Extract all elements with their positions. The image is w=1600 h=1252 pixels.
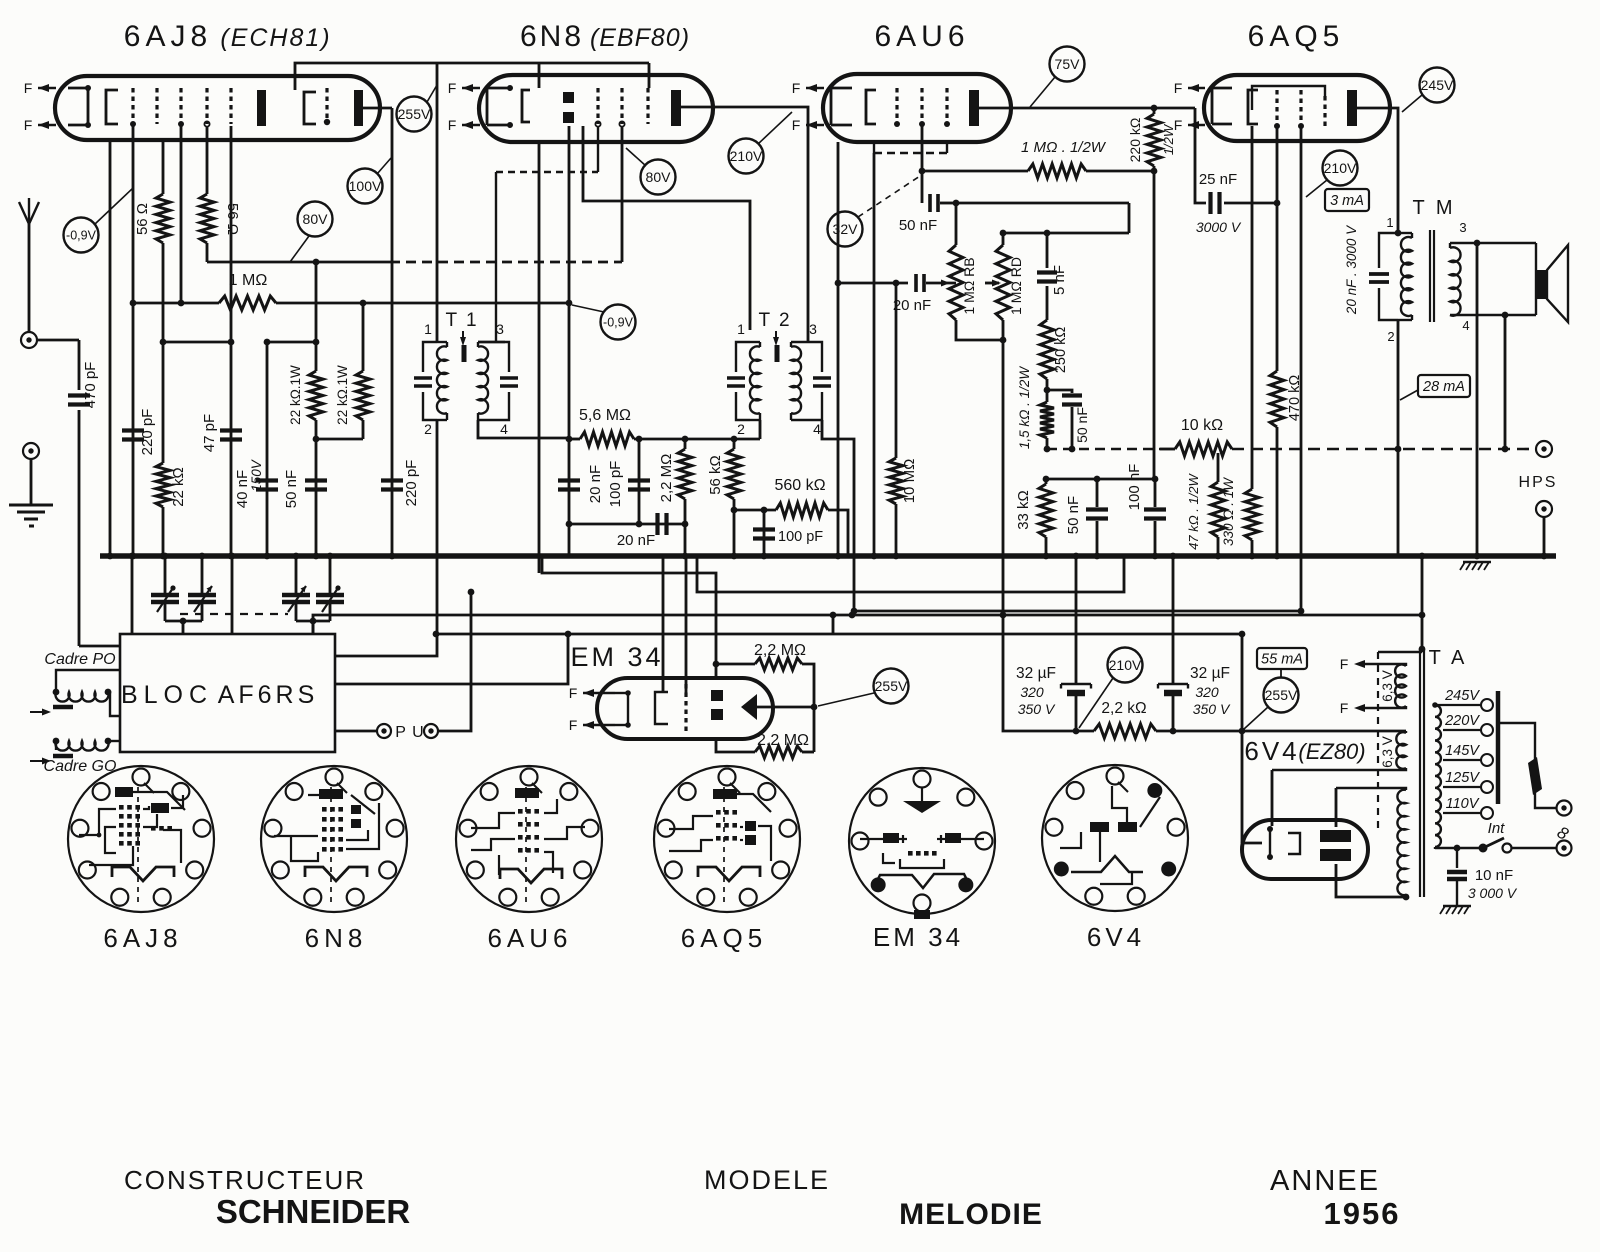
svg-text:80V: 80V — [646, 169, 672, 185]
svg-text:T A: T A — [1429, 647, 1468, 669]
tube EM34 heater arrows — [583, 692, 615, 694]
capacitor 25nF 3000V — [1195, 108, 1206, 203]
svg-text:245V: 245V — [1421, 77, 1454, 93]
wire V1 g3 down to AGC — [180, 126, 183, 303]
socket 6N8 — [261, 766, 407, 912]
wire EM34 plate feed — [662, 556, 665, 693]
svg-text:560 kΩ: 560 kΩ — [774, 477, 825, 494]
svg-text:25 nF: 25 nF — [1199, 171, 1237, 188]
transformer T2 core — [775, 345, 780, 362]
svg-text:T 2: T 2 — [758, 310, 791, 331]
wire antenna to 470pF — [37, 339, 79, 342]
wire V4 anode to TM — [1357, 108, 1398, 233]
svg-text:110V: 110V — [1446, 796, 1480, 812]
svg-text:10 kΩ: 10 kΩ — [1181, 417, 1223, 434]
tube V2 grid g2 — [620, 88, 623, 124]
svg-text:F: F — [448, 117, 457, 133]
trimmer CV3 — [295, 556, 298, 595]
svg-text:50 nF: 50 nF — [1065, 496, 1082, 534]
svg-text:Cadre PO: Cadre PO — [44, 651, 115, 668]
svg-text:47 kΩ . 1/2W: 47 kΩ . 1/2W — [1186, 472, 1201, 549]
tube V1 filament — [68, 87, 88, 90]
resistor 10M grid leak — [895, 283, 898, 458]
svg-text:100V: 100V — [349, 178, 382, 194]
antenna — [28, 198, 30, 224]
core Cadre GO — [53, 754, 73, 759]
resistor 56 ohm (1) — [162, 140, 165, 194]
svg-text:20 nF . 3000 V: 20 nF . 3000 V — [1344, 224, 1359, 315]
tube V1 triode grid dashes — [325, 88, 328, 124]
svg-text:210V: 210V — [1324, 160, 1357, 176]
svg-text:1/2W: 1/2W — [1161, 123, 1176, 155]
svg-text:220V: 220V — [1444, 713, 1480, 729]
wire speaker return to HPS line — [1504, 315, 1507, 449]
svg-text:F: F — [792, 80, 801, 96]
tube EM34 filament — [627, 693, 629, 725]
svg-text:32V: 32V — [833, 221, 859, 237]
svg-text:2,2 MΩ: 2,2 MΩ — [754, 642, 806, 659]
svg-text:6N8: 6N8 — [305, 923, 368, 953]
transformer T1 core — [462, 345, 467, 362]
wire rail screen y=611 — [854, 610, 1301, 613]
tube V2 anode — [671, 90, 681, 126]
voltage -0,9V circle (V1) — [64, 218, 99, 253]
socket 6V4 — [1042, 765, 1188, 911]
wire voltage selector bar — [1496, 691, 1501, 804]
svg-text:(EBF80): (EBF80) — [590, 24, 690, 52]
resistor 330ohm 1W — [1245, 489, 1259, 540]
node earth terminal — [23, 443, 39, 459]
resistor 1M 1/2W — [922, 170, 1028, 173]
wire antenna lead — [28, 224, 31, 332]
trimmer CV2 — [201, 556, 204, 595]
wire V3 g1 return to bus — [873, 153, 876, 556]
capacitor 50nF (V3 g2) — [921, 171, 924, 203]
resistor 22k 1W (2) — [362, 303, 365, 371]
wire HT rail to 6V4 cathode — [1241, 634, 1244, 843]
svg-text:F: F — [1174, 80, 1183, 96]
svg-text:33 kΩ: 33 kΩ — [1015, 490, 1032, 530]
svg-text:20 nF: 20 nF — [617, 532, 655, 549]
wire V2 cathode down long — [538, 142, 541, 573]
transformer T1 primary — [423, 342, 437, 372]
tube V1 6AJ8 envelope — [55, 76, 380, 140]
tube V1 triode grid bracket — [304, 92, 316, 124]
wire 6V4 plate bottom to HT winding — [1336, 864, 1406, 897]
tube V1 grid g4 — [205, 88, 208, 124]
svg-text:(ECH81): (ECH81) — [220, 24, 331, 52]
resistor 33k — [1045, 479, 1048, 484]
svg-text:4: 4 — [500, 421, 508, 437]
svg-text:6,3 V: 6,3 V — [1380, 670, 1395, 702]
node PU terminal right — [424, 724, 438, 738]
wire top rung y=342 left — [163, 341, 231, 344]
svg-text:-0,9V: -0,9V — [66, 229, 97, 243]
svg-text:6V4: 6V4 — [1244, 736, 1299, 766]
voltage 75V circle — [1050, 47, 1085, 82]
svg-text:EM 34: EM 34 — [570, 642, 663, 672]
svg-text:3 000 V: 3 000 V — [1468, 885, 1518, 901]
svg-text:255V: 255V — [1265, 687, 1298, 703]
node HPS terminal top — [1536, 441, 1552, 457]
svg-text:EM 34: EM 34 — [873, 922, 963, 952]
resistor 2,2M (EM34 top) — [715, 664, 718, 678]
tube V3 filament — [830, 88, 833, 125]
svg-text:22 kΩ.1W: 22 kΩ.1W — [335, 365, 350, 425]
tube EM34 grid — [684, 684, 687, 733]
resistor 560k — [734, 509, 776, 512]
svg-text:F: F — [448, 80, 457, 96]
svg-text:1: 1 — [737, 321, 745, 337]
transformer TM secondary — [1450, 247, 1461, 315]
svg-text:1,5 kΩ . 1/2W: 1,5 kΩ . 1/2W — [1017, 366, 1032, 450]
wire V4 g1 down — [1276, 126, 1279, 203]
tube V3 grid g3 — [945, 88, 948, 124]
wire RD top rung — [1003, 232, 1129, 235]
resistor 2,2M — [678, 449, 692, 499]
svg-text:22 kΩ: 22 kΩ — [170, 467, 187, 507]
resistor 1,5k 1/2W — [1046, 379, 1049, 402]
svg-text:220 kΩ: 220 kΩ — [1127, 118, 1143, 163]
svg-text:4: 4 — [813, 421, 821, 437]
svg-text:2: 2 — [737, 421, 745, 437]
wire det bottom rung — [569, 523, 685, 526]
tube V1 triode anode — [354, 90, 363, 126]
socket 6AQ5 — [654, 766, 800, 912]
trimmer CV1 — [164, 556, 167, 595]
tube EM34 deflectors — [711, 690, 723, 701]
svg-text:P U: P U — [395, 724, 424, 741]
tube EM34 plate bracket — [655, 692, 668, 724]
tube V2 diode plates — [563, 92, 574, 103]
socket 6AU6 — [456, 766, 602, 912]
coil Cadre PO — [56, 692, 109, 702]
resistor 2,2M (EM34 bottom) — [716, 739, 755, 752]
svg-text:50 nF: 50 nF — [899, 217, 937, 234]
svg-text:320: 320 — [1195, 684, 1219, 700]
wire V1 osc grid down — [391, 108, 394, 556]
tube V1 heater F arrows — [38, 87, 56, 89]
capacitor 32uF (1) — [1075, 556, 1078, 683]
svg-text:6AU6: 6AU6 — [487, 923, 572, 953]
resistor 56 ohm (2) — [206, 126, 209, 194]
tube V1 anode (hexode) — [257, 90, 266, 126]
tube V2 6N8 envelope — [479, 75, 713, 142]
svg-text:3 mA: 3 mA — [1330, 193, 1364, 209]
node antenna terminal — [21, 332, 37, 348]
tube 6V4 cathode — [1269, 829, 1271, 857]
svg-text:1 MΩ RB: 1 MΩ RB — [961, 257, 977, 314]
tube V1 grid g5 — [229, 88, 232, 124]
wire bloc pin risers — [131, 556, 134, 634]
transformer TM core — [1429, 230, 1431, 322]
capacitor 50nF (V1 screen) — [315, 439, 318, 556]
tube V3 grid g2 — [920, 88, 923, 124]
wire secondary ground return — [1476, 243, 1479, 556]
svg-text:6AU6: 6AU6 — [874, 20, 969, 53]
voltage 80V circle (V2) — [641, 160, 676, 195]
tube V1 grid g1 — [131, 88, 134, 124]
svg-text:6AQ5: 6AQ5 — [681, 923, 768, 953]
svg-text:2: 2 — [1387, 329, 1394, 344]
wire 6V4 heater tap — [1271, 770, 1274, 826]
tube V2 heater F arrows — [462, 87, 480, 89]
svg-text:SCHNEIDER: SCHNEIDER — [216, 1193, 411, 1230]
svg-text:20 nF: 20 nF — [893, 297, 931, 314]
svg-text:245V: 245V — [1444, 688, 1480, 704]
svg-text:32 µF: 32 µF — [1190, 665, 1230, 682]
wire V2 diode down — [568, 126, 571, 439]
tube V4 anode — [1347, 90, 1357, 126]
tube V4 grid g1 — [1275, 90, 1278, 126]
tube V1 grid g3 — [179, 88, 182, 124]
capacitor 10nF 3000V — [1456, 848, 1458, 868]
wire top rung y=342 right — [267, 341, 316, 344]
svg-text:1: 1 — [424, 321, 432, 337]
transformer T2 secondary — [736, 342, 750, 372]
svg-text:47 pF: 47 pF — [201, 414, 218, 452]
voltage 255V circle (EM34) — [874, 669, 909, 704]
resistor 22k (below 56ohm) — [162, 243, 165, 463]
wire rail HT2 y=634 — [436, 633, 1242, 636]
wire V2 anode to T2 — [583, 126, 750, 330]
wire HT rail left drop — [1003, 615, 1076, 731]
wire V2 g2 down to 80V line — [621, 126, 624, 262]
tube V4 6AQ5 envelope — [1204, 75, 1390, 141]
current 55mA box — [1257, 648, 1307, 669]
node PU terminal left — [377, 724, 391, 738]
capacitor 220pF (osc) — [381, 478, 403, 482]
resistor 470k — [1276, 203, 1279, 371]
svg-text:10 MΩ: 10 MΩ — [901, 459, 918, 504]
resistor 22k 1W (1) — [315, 342, 318, 371]
node mains terminal 2 — [1557, 841, 1572, 856]
svg-text:2: 2 — [424, 421, 432, 437]
svg-text:56 Ω: 56 Ω — [224, 203, 241, 235]
transformer TA mains winding — [1434, 704, 1436, 706]
wire HPS dashed — [1232, 448, 1536, 451]
svg-text:F: F — [569, 717, 578, 733]
svg-text:56 Ω: 56 Ω — [134, 203, 151, 235]
wire 255V to heater2 top — [1242, 730, 1406, 733]
tube V3 heater F arrows — [806, 87, 824, 89]
wire T2 primary bottom to HT rail — [822, 420, 854, 615]
tube V3 anode — [969, 90, 979, 126]
trimmer CV4 — [329, 556, 332, 595]
capacitor 100nF — [1154, 479, 1157, 507]
wire 80V line y=262 — [207, 261, 390, 264]
wire TM primary bottom down — [1397, 320, 1400, 556]
wire V1 anode out right — [363, 107, 392, 110]
transformer TA heater winding 6,3V (1) — [1358, 664, 1406, 666]
transformer TA bracket dashed — [1377, 652, 1379, 828]
tube V4 internal beam plate link — [1252, 86, 1325, 110]
wire V4 cathode down — [1251, 126, 1254, 489]
svg-text:20 nF: 20 nF — [587, 465, 604, 503]
voltage 255V circle (PSU) — [1264, 678, 1299, 713]
svg-text:22 kΩ.1W: 22 kΩ.1W — [288, 365, 303, 425]
svg-text:100 pF: 100 pF — [778, 529, 823, 545]
svg-text:ANNEE: ANNEE — [1270, 1165, 1380, 1197]
wire V3 g1 dash-dot — [873, 142, 875, 153]
capacitor 220pF (g1) — [122, 428, 144, 432]
voltage 80V circle (V1) — [298, 202, 333, 237]
svg-text:3: 3 — [1459, 220, 1466, 235]
transformer TA core — [1419, 649, 1421, 897]
resistor 56k — [727, 449, 741, 499]
wire bloc outputs right — [335, 634, 437, 656]
svg-text:6,3 V: 6,3 V — [1380, 736, 1395, 768]
svg-text:250 kΩ: 250 kΩ — [1053, 327, 1069, 373]
svg-text:2,2 kΩ: 2,2 kΩ — [1101, 700, 1146, 717]
svg-text:145V: 145V — [1445, 743, 1480, 759]
current 3mA box — [1325, 189, 1369, 211]
voltage 245V circle — [1420, 68, 1455, 103]
wire rail heater y=592 — [697, 556, 1124, 592]
svg-text:5,6 MΩ: 5,6 MΩ — [579, 407, 631, 424]
svg-text:6N8: 6N8 — [520, 20, 584, 53]
svg-text:F: F — [792, 117, 801, 133]
svg-text:255V: 255V — [875, 678, 908, 694]
svg-text:AF6RS: AF6RS — [218, 681, 319, 709]
wire HPS bottom to bus — [1543, 517, 1546, 556]
wire EM34 output — [757, 706, 814, 709]
capacitor 470pF — [68, 393, 90, 397]
tube V1 grid g2 — [155, 88, 158, 124]
svg-text:470 pF: 470 pF — [82, 362, 99, 409]
wire TA core top to bus — [1421, 556, 1424, 649]
svg-text:3: 3 — [496, 321, 504, 337]
wire T2 sec bottom to 5.6M — [759, 420, 762, 439]
svg-text:1 MΩ: 1 MΩ — [229, 272, 268, 289]
tube V4 filament — [1211, 88, 1214, 124]
tube V4 heater F arrows — [1188, 87, 1205, 89]
svg-text:Int: Int — [1488, 820, 1506, 837]
svg-text:6AJ8: 6AJ8 — [124, 20, 212, 53]
wire 220k junction down — [1153, 171, 1156, 479]
wire rail osc coupling y=573 — [542, 556, 716, 664]
svg-text:1 MΩ . 1/2W: 1 MΩ . 1/2W — [1021, 139, 1107, 156]
svg-text:50 nF: 50 nF — [1074, 407, 1090, 443]
tube V3 6AU6 envelope — [823, 74, 1011, 142]
svg-text:28 mA: 28 mA — [1422, 379, 1465, 395]
tube V3 grid g1 — [895, 88, 898, 124]
svg-text:-0,9V: -0,9V — [603, 316, 634, 330]
tube 6V4 envelope — [1242, 820, 1368, 879]
tube V2 grid g3 — [646, 88, 649, 124]
svg-text:56 kΩ: 56 kΩ — [707, 455, 724, 495]
svg-text:350 V: 350 V — [1193, 701, 1231, 717]
svg-text:BLOC: BLOC — [121, 681, 213, 709]
tube V4 grid g2 — [1299, 90, 1302, 126]
capacitor 40nF 150V — [266, 342, 269, 556]
wire V3 g2 down — [921, 126, 924, 171]
wire TA taps — [1435, 704, 1481, 706]
wire T1 primary bottom to HT rail — [436, 420, 439, 634]
voltage -0,9V circle (V2) — [601, 305, 636, 340]
wire EM34 grid feed — [685, 556, 688, 694]
tube V1 cathode — [106, 90, 118, 124]
svg-text:320: 320 — [1020, 684, 1044, 700]
capacitor 47pF — [230, 342, 233, 556]
block BLOC AF6RS — [120, 634, 335, 752]
wire V1 g5 down — [230, 126, 233, 342]
svg-text:125V: 125V — [1445, 770, 1480, 786]
svg-text:32 µF: 32 µF — [1016, 665, 1056, 682]
resistor 220k 1/2W — [1147, 114, 1161, 166]
svg-text:55 mA: 55 mA — [1261, 652, 1303, 668]
svg-text:MODELE: MODELE — [704, 1165, 830, 1195]
svg-text:350 V: 350 V — [1018, 701, 1056, 717]
svg-text:210V: 210V — [730, 148, 763, 164]
svg-text:4: 4 — [1462, 318, 1469, 333]
tube V2 grid g1 — [596, 88, 599, 124]
coil Cadre GO — [56, 741, 109, 751]
wire PU riser — [439, 592, 471, 731]
capacitor 32uF (2) — [1172, 556, 1175, 683]
voltage 255V circle — [397, 97, 432, 132]
wire V4 g2 down to HT rail — [1300, 126, 1303, 611]
resistor 5,6M — [569, 438, 580, 441]
wire mains winding bottom — [1435, 847, 1479, 849]
voltage 210V circle (PSU) — [1108, 648, 1143, 683]
fuse — [1498, 723, 1535, 760]
transformer TM primary — [1379, 233, 1398, 268]
tube V2 filament — [486, 88, 489, 125]
svg-text:5 nF: 5 nF — [1051, 265, 1068, 295]
node HPS terminal bottom — [1536, 501, 1552, 517]
resistor 2,2k — [1076, 730, 1094, 733]
wire V3 anode out — [979, 107, 1195, 110]
svg-text:T M: T M — [1412, 197, 1455, 219]
wire g2/decoupling rung y=479 — [1046, 478, 1155, 481]
svg-text:50 nF: 50 nF — [283, 470, 300, 508]
svg-text:220 pF: 220 pF — [139, 409, 156, 456]
svg-text:3: 3 — [809, 321, 817, 337]
wire AGC dashed line — [1047, 448, 1160, 451]
capacitor 20nF (det) — [568, 439, 571, 556]
svg-text:1956: 1956 — [1324, 1196, 1401, 1231]
svg-text:6V4: 6V4 — [1087, 922, 1145, 952]
wire V2 g1 dashed — [597, 126, 599, 172]
wire TM secondary to speaker — [1450, 242, 1536, 244]
svg-text:100 nF: 100 nF — [1126, 464, 1143, 511]
svg-text:6AJ8: 6AJ8 — [103, 923, 182, 953]
tube V4 grid g3 — [1323, 96, 1326, 126]
transformer T2 primary — [791, 346, 801, 413]
wire V1 triode anode top exit — [295, 63, 649, 90]
wire anode feed down to T1 — [436, 63, 439, 342]
capacitor 100pF (AF) — [763, 510, 766, 556]
tube V2 cathode — [522, 90, 530, 122]
tube EM34 target — [741, 694, 757, 720]
current 28mA box — [1418, 375, 1470, 397]
wire V1 g1 down — [132, 126, 135, 556]
svg-text:80V: 80V — [303, 211, 329, 227]
tube V3 cathode — [866, 90, 876, 124]
svg-text:100 pF: 100 pF — [607, 461, 624, 508]
svg-text:F: F — [24, 80, 33, 96]
tube 6V4 heater bracket — [1288, 833, 1300, 854]
svg-text:T 1: T 1 — [445, 310, 478, 331]
svg-text:MELODIE: MELODIE — [899, 1198, 1043, 1231]
potentiometer 1M RD — [985, 282, 999, 285]
wire rung below 22k pair — [315, 420, 318, 439]
wire V3 cathode down — [837, 142, 840, 556]
wire V2 diode plate out to right — [681, 107, 808, 342]
node mains terminal 1 — [1557, 801, 1572, 816]
transformer TA heater winding 6,3V (2) — [1405, 731, 1407, 733]
